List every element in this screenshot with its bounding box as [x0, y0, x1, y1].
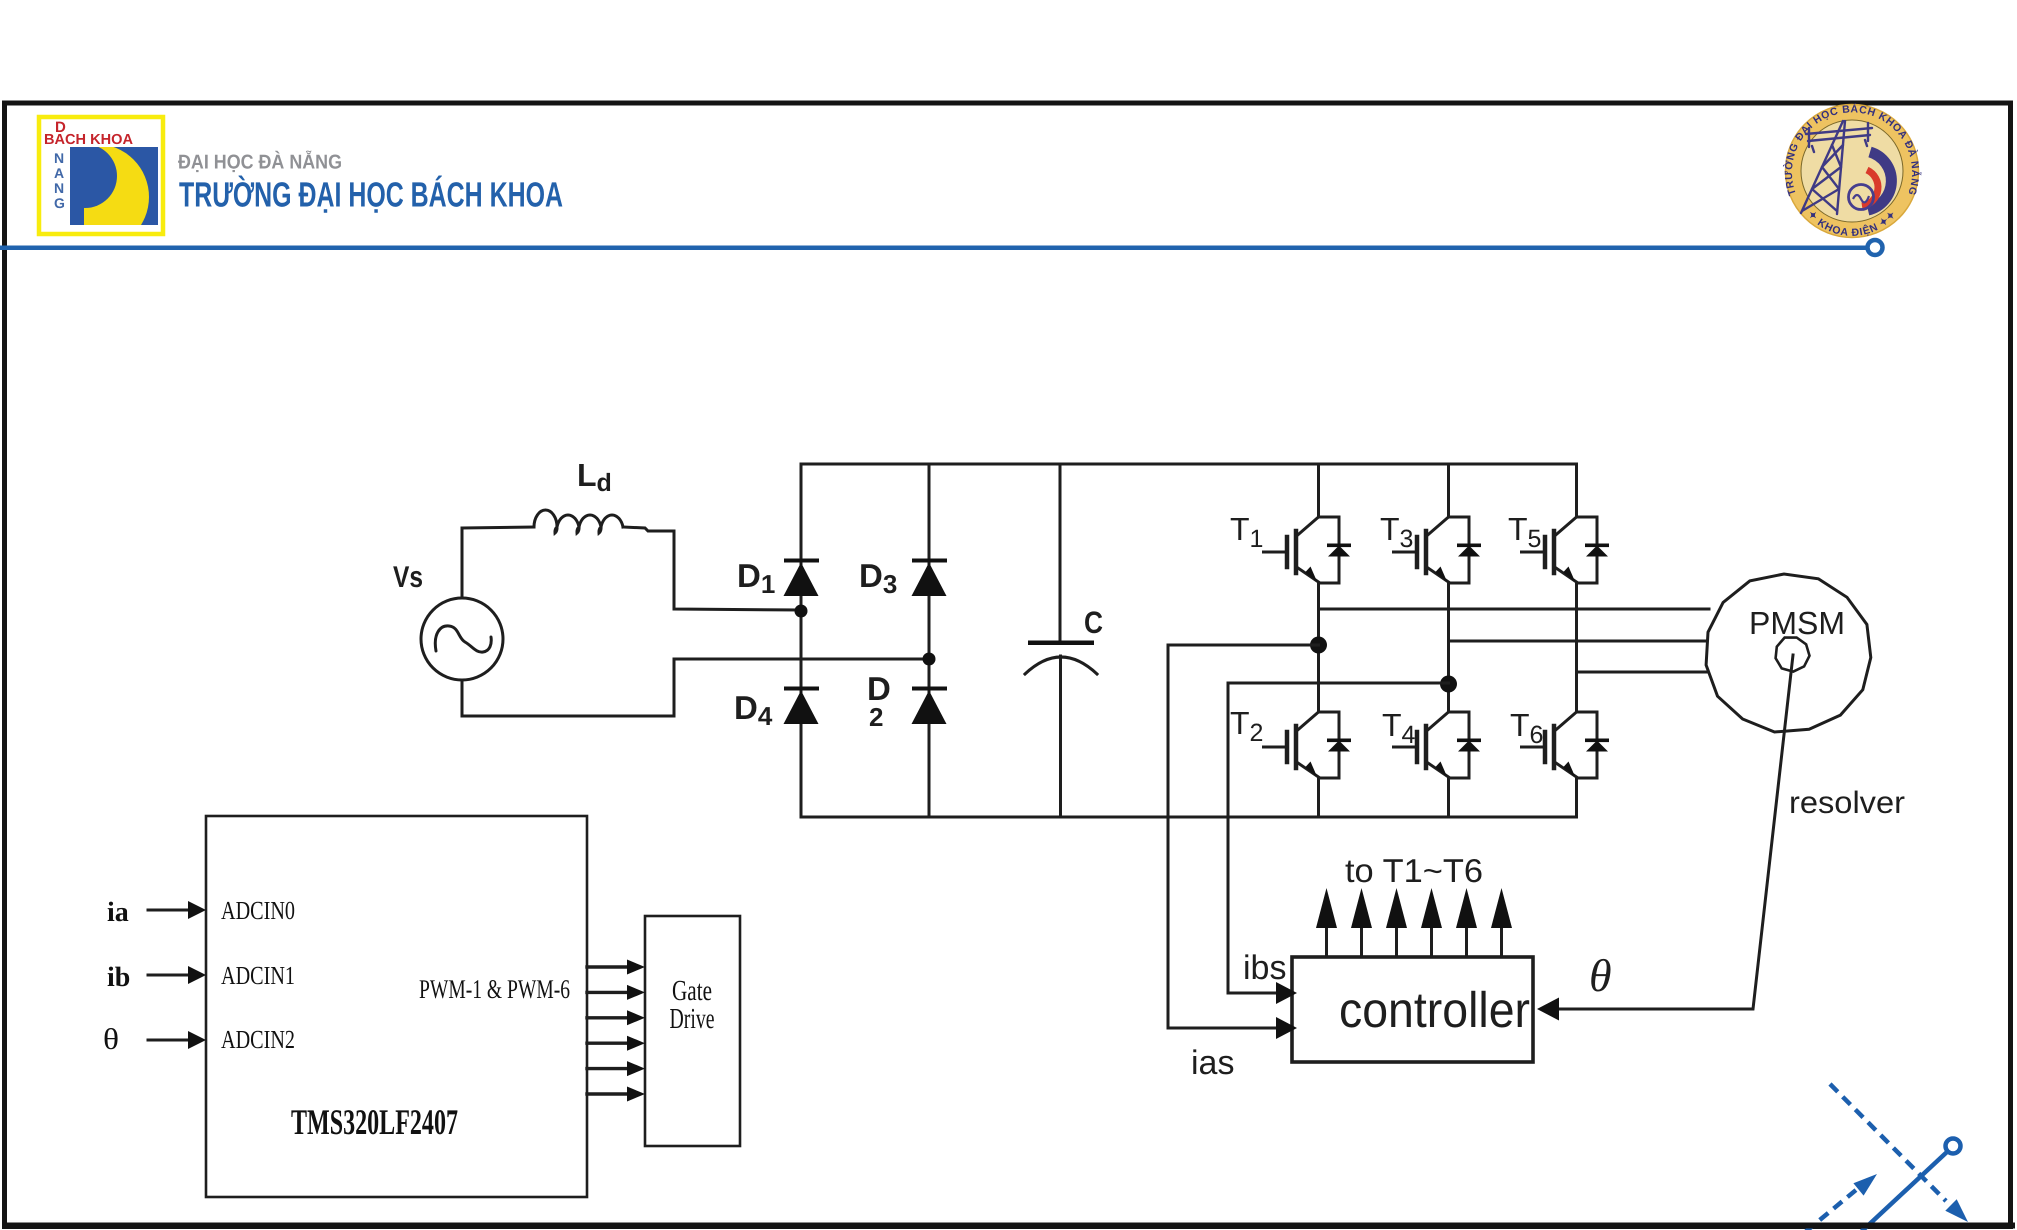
- svg-text:PMSM: PMSM: [1749, 605, 1845, 641]
- transistor T1: [1264, 517, 1352, 583]
- diode D1: [784, 559, 820, 597]
- wire: bottom return to bridge mid: [462, 659, 929, 716]
- transistor T2: [1264, 712, 1352, 778]
- svg-text:N: N: [54, 150, 64, 166]
- svg-text:2: 2: [869, 702, 883, 732]
- university logo (top-left yellow square): [39, 117, 163, 250]
- svg-text:PWM-1 & PWM-6: PWM-1 & PWM-6: [419, 974, 570, 1004]
- wire: ias sense line: [1168, 645, 1319, 1028]
- svg-text:C: C: [1084, 605, 1103, 640]
- wire: inverter leg C: [1575, 464, 1578, 817]
- wire: resolver position feedback: [1556, 655, 1793, 1009]
- transistor T6: [1522, 712, 1610, 778]
- arrow: ib input: [148, 974, 193, 977]
- svg-text:ADCIN1: ADCIN1: [221, 961, 295, 990]
- wire: dc top bus: [801, 463, 1576, 466]
- capacitor C: [1059, 464, 1062, 641]
- diode D3: [912, 559, 948, 597]
- transistor T5: [1522, 517, 1610, 583]
- wire: inverter leg B: [1447, 464, 1450, 817]
- svg-text:ADCIN2: ADCIN2: [221, 1025, 295, 1054]
- svg-text:TRƯỜNG ĐẠI HỌC BÁCH KHOA: TRƯỜNG ĐẠI HỌC BÁCH KHOA: [179, 175, 563, 215]
- svg-text:resolver: resolver: [1789, 785, 1905, 820]
- ac source Vs: [421, 598, 503, 680]
- transistor T4: [1394, 712, 1482, 778]
- wire: D1/D4 leg: [800, 464, 803, 817]
- svg-text:ib: ib: [107, 962, 130, 993]
- controller box: [1292, 957, 1533, 1062]
- decorative dashed arrow (up-right): [1792, 1190, 1856, 1230]
- svg-text:θ: θ: [1589, 950, 1612, 1001]
- wire: dc bottom bus: [801, 816, 1576, 819]
- motor PMSM: [1706, 574, 1871, 732]
- DSP block TMS320LF2407: [206, 816, 587, 1197]
- wire: top to inductor: [462, 527, 534, 528]
- pwm arrows: dsp to gate drive: [587, 960, 645, 1102]
- decorative dashed arrow (down-right): [1830, 1084, 1946, 1201]
- arrowhead: ibs into controller: [1276, 982, 1297, 1004]
- wire: inverter leg A: [1317, 464, 1320, 817]
- wire: phase C to motor: [1577, 671, 1708, 674]
- svg-text:ias: ias: [1191, 1044, 1234, 1082]
- header separator blue line: [0, 246, 1866, 251]
- wire: D3/D2 leg: [928, 464, 931, 817]
- inductor Ld: [534, 510, 623, 533]
- junction: phase A current tap: [1310, 637, 1327, 654]
- gate pulse arrows to T1~T6: [1316, 888, 1512, 957]
- decorative solid line with ring: [1861, 1151, 1948, 1230]
- svg-text:ia: ia: [107, 897, 129, 928]
- faculty seal (top-right golden circle): [1782, 102, 1922, 239]
- transistor T3: [1394, 517, 1482, 583]
- svg-text:ĐẠI HỌC ĐÀ NẴNG: ĐẠI HỌC ĐÀ NẴNG: [178, 151, 342, 174]
- junction: phase B current tap: [1440, 676, 1457, 693]
- wire: inductor to rectifier top: [623, 527, 801, 610]
- svg-text:Vs: Vs: [393, 561, 423, 594]
- arrow: theta input: [148, 1039, 193, 1042]
- svg-text:to T1~T6: to T1~T6: [1345, 852, 1483, 889]
- header line end ring: [1868, 240, 1883, 255]
- svg-text:Drive: Drive: [670, 1003, 715, 1035]
- svg-text:controller: controller: [1339, 982, 1530, 1038]
- wire: phase A to motor: [1319, 608, 1710, 611]
- svg-text:A: A: [54, 165, 64, 181]
- svg-text:TMS320LF2407: TMS320LF2407: [291, 1102, 458, 1142]
- diode D4: [784, 687, 820, 725]
- sine symbol inside Vs: [435, 626, 491, 652]
- diode D2: [912, 687, 948, 725]
- junction: rectifier node a: [795, 605, 808, 618]
- svg-text:G: G: [54, 195, 65, 211]
- svg-text:ibs: ibs: [1243, 949, 1286, 987]
- svg-text:N: N: [54, 180, 64, 196]
- wire: Vs bottom lead: [461, 680, 464, 716]
- wire: Vs top lead: [461, 528, 464, 598]
- svg-text:θ: θ: [103, 1023, 119, 1056]
- svg-text:ADCIN0: ADCIN0: [221, 896, 295, 925]
- resolver shaft circle: [1776, 638, 1810, 672]
- arrow: ia input: [148, 909, 193, 912]
- gate drive box: [645, 916, 740, 1146]
- arrowhead: theta into controller: [1537, 998, 1559, 1021]
- wire: ibs sense line: [1228, 683, 1449, 993]
- bottom border overlay: [2, 1223, 2015, 1229]
- arrowhead: ias into controller: [1276, 1017, 1297, 1039]
- wire: phase B to motor: [1449, 640, 1706, 643]
- junction: rectifier node b: [923, 653, 936, 666]
- svg-text:BACH KHOA: BACH KHOA: [44, 132, 134, 148]
